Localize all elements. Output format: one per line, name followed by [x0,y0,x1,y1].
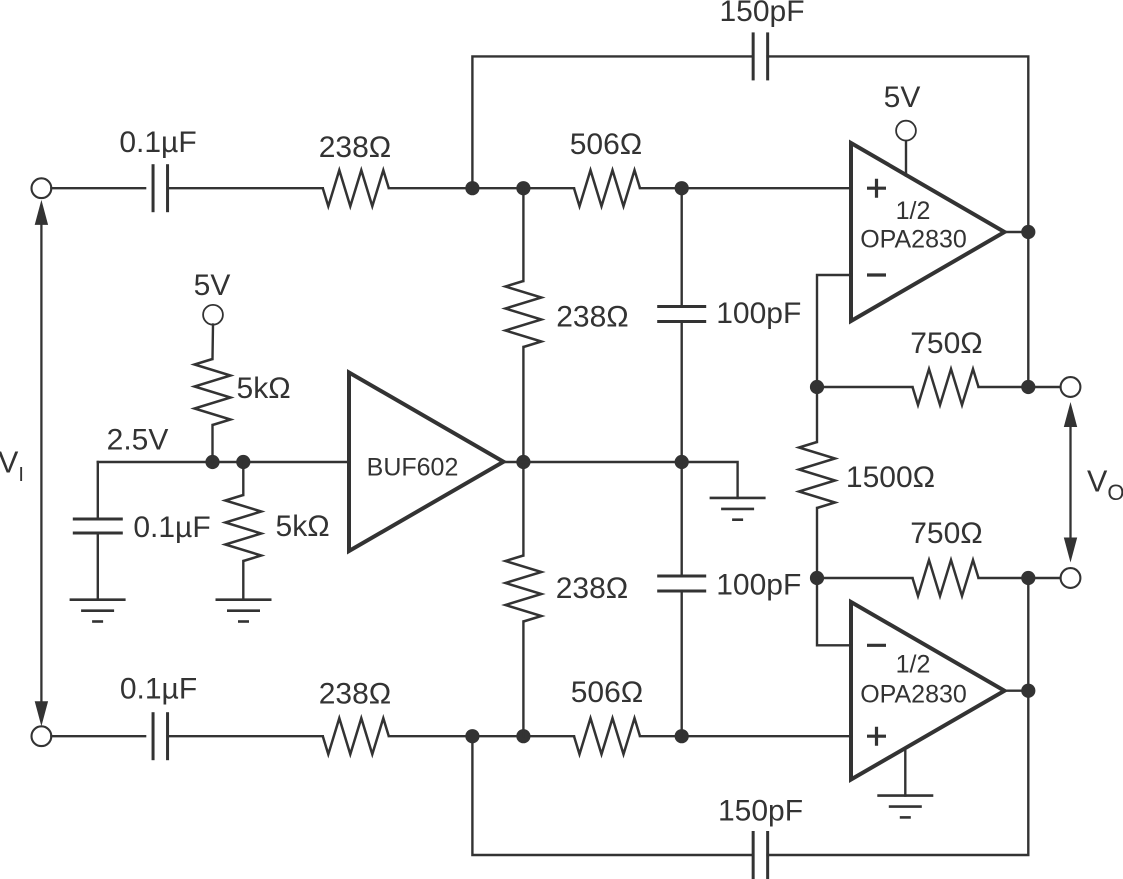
capacitor C3 100pF (top) [657,305,706,308]
svg-text:0.1µF: 0.1µF [133,511,210,544]
wire C4 to bottom-C [681,591,683,736]
wire C2 to R2 [168,735,323,737]
wire C3 to mid node [681,322,683,463]
wire to VO- terminal [1028,577,1061,579]
wire 2.5V rail down to C7 [97,462,99,519]
svg-text:0.1µF: 0.1µF [120,673,197,706]
wire 2.5V node down to R10 [242,462,244,495]
wire VI- to C2 [51,735,145,737]
ground symbol under R10 [216,598,272,601]
wire 5V to R9 [211,325,214,360]
svg-text:150pF: 150pF [719,0,804,28]
ground symbol at cap centre tap [710,497,766,500]
resistor R5 750Ω (top feedback) [913,369,979,405]
input terminal VI+ (open circle) [32,178,52,198]
wire BUF output to mid node [504,461,682,463]
wire feedback node to RG [816,387,818,442]
svg-text:5kΩ: 5kΩ [276,510,330,543]
U1 − input symbol [867,273,886,276]
junction U1 output node [1021,225,1035,239]
junction BUF602 output node [516,455,530,469]
wire top-B down to R7 [522,188,524,281]
svg-text:750Ω: 750Ω [910,517,982,550]
svg-text:150pF: 150pF [718,795,803,828]
svg-text:VI: VI [0,446,24,486]
svg-text:2.5V: 2.5V [107,423,169,456]
node VI differential input arrow [40,210,42,716]
junction feedback node bottom [810,571,824,585]
wire mid node down to C4 [681,462,683,576]
wire R8 to bottom-B [522,622,524,737]
capacitor C5 150pF (top feedback) [752,32,755,80]
svg-text:5kΩ: 5kΩ [237,372,291,405]
wire 2.5V rail to BUF input [98,461,349,463]
wire VI+ to C1 [51,187,145,189]
VI arrow head down [35,701,48,726]
wire R5 to output rail [979,386,1029,388]
wire top feedback right segment to output rail [768,56,1029,387]
svg-text:1/2: 1/2 [896,650,931,678]
VO arrow head down [1064,538,1077,563]
svg-text:BUF602: BUF602 [367,454,459,482]
junction node top-A (feedback tap) [465,181,479,195]
resistor R10 5kΩ (lower divider) [225,495,261,561]
wire R6 to output rail [979,577,1029,579]
capacitor C1 0.1µF (series, top) [152,164,155,212]
capacitor C6 150pF (bottom feedback) [752,831,755,879]
output terminal VO- (open circle) [1061,568,1081,588]
op-amp U2 triangle 1/2 OPA2830 (bottom) [851,602,1005,780]
junction node bottom-B (238Ω tap) [516,729,530,743]
svg-text:506Ω: 506Ω [570,128,642,161]
wire bottom feedback right segment [768,578,1029,855]
junction output rail / R6 [1021,571,1035,585]
svg-text:238Ω: 238Ω [556,300,628,333]
wire R1 through junctions to R3 [389,187,574,189]
wire U2 output to rail [1005,690,1029,692]
U1 + input symbol [867,179,886,198]
junction 2.5V / 5k divider bottom [236,455,250,469]
svg-text:1/2: 1/2 [896,197,931,225]
wire to VO+ terminal [1028,386,1061,388]
wire R10 to ground [242,561,244,600]
wire R2 through junctions to R4 [389,735,574,737]
svg-text:100pF: 100pF [716,569,801,602]
junction U2 output node [1021,684,1035,698]
VI arrow head up [35,200,48,225]
svg-text:0.1µF: 0.1µF [119,126,196,159]
resistor RG 1500Ω (between feedback nodes) [799,442,835,508]
wire R4 to U2 + input [640,735,851,737]
wire U1 − input to feedback node [817,275,851,387]
junction output rail / R5 [1021,380,1035,394]
svg-text:OPA2830: OPA2830 [860,680,967,708]
wire U2 − input to feedback node [817,578,851,645]
svg-text:5V: 5V [884,81,921,114]
junction node bottom-A (feedback tap) [465,729,479,743]
svg-text:OPA2830: OPA2830 [860,226,967,254]
capacitor C2 0.1µF (series, bottom) [152,712,155,760]
wire C7 to ground [97,533,99,600]
node VO differential output arrow [1069,412,1071,552]
resistor R4 506Ω (bottom series) [574,718,640,754]
power terminal 5V for divider [203,305,223,325]
wire U1 output to rail [1005,231,1029,233]
wire top-C down to C3 [681,188,683,306]
resistor R8 238Ω (bottom vertical) [505,556,541,622]
resistor R3 506Ω (top series) [574,170,640,206]
wire feedback node to R5 [817,386,913,388]
svg-text:238Ω: 238Ω [319,677,391,710]
wire RG to bottom feedback node [816,508,818,578]
wire U2 ground stub [904,750,906,796]
junction 2.5V / 5k divider top [205,455,219,469]
capacitor C4 100pF (bottom) [657,575,706,578]
wire top feedback left segment [472,56,753,188]
svg-text:238Ω: 238Ω [319,131,391,164]
wire R9 to 2.5V node [211,425,213,462]
U2 + input symbol [867,727,886,746]
wire R7 to BUF output node [522,347,524,462]
svg-text:100pF: 100pF [716,297,801,330]
svg-text:238Ω: 238Ω [556,572,628,605]
svg-text:5V: 5V [194,269,231,302]
capacitor C7 0.1µF (bias decoupling) [73,518,123,521]
ground symbol under C7 [70,598,126,601]
junction node top-B (238Ω tap) [516,181,530,195]
wire feedback node to R6 [817,577,913,579]
junction node bottom-C (100pF tap) [675,729,689,743]
wire C1 to R1 [168,187,323,189]
output terminal VO+ (open circle) [1061,377,1081,397]
ground symbol under U2 [877,794,933,797]
VO arrow head up [1064,402,1077,427]
resistor R2 238Ω (bottom series) [323,718,389,754]
U2 − input symbol [867,644,886,647]
svg-text:750Ω: 750Ω [910,327,982,360]
buffer U3 BUF602 triangle [349,373,504,552]
resistor R1 238Ω (top series) [323,170,389,206]
wire U1 5V supply stub [905,140,907,175]
resistor R9 5kΩ (upper divider) [195,359,231,425]
junction node top-C (100pF tap) [675,181,689,195]
resistor R6 750Ω (bottom feedback) [913,560,979,596]
svg-text:1500Ω: 1500Ω [846,461,935,494]
wire BUF output node down to R8 [522,462,524,556]
wire R3 to U1 + input [640,187,851,189]
wire mid node to ground [682,462,738,498]
svg-text:VO: VO [1087,465,1123,505]
resistor R7 238Ω (top vertical) [505,281,541,347]
svg-text:506Ω: 506Ω [571,676,643,709]
junction mid node (cap centre tap) [675,455,689,469]
power terminal 5V for U1 [896,121,916,141]
junction feedback node top [810,380,824,394]
op-amp U1 triangle 1/2 OPA2830 (top) [851,143,1005,321]
wire bottom feedback left segment [472,736,753,855]
input terminal VI- (open circle) [32,726,52,746]
